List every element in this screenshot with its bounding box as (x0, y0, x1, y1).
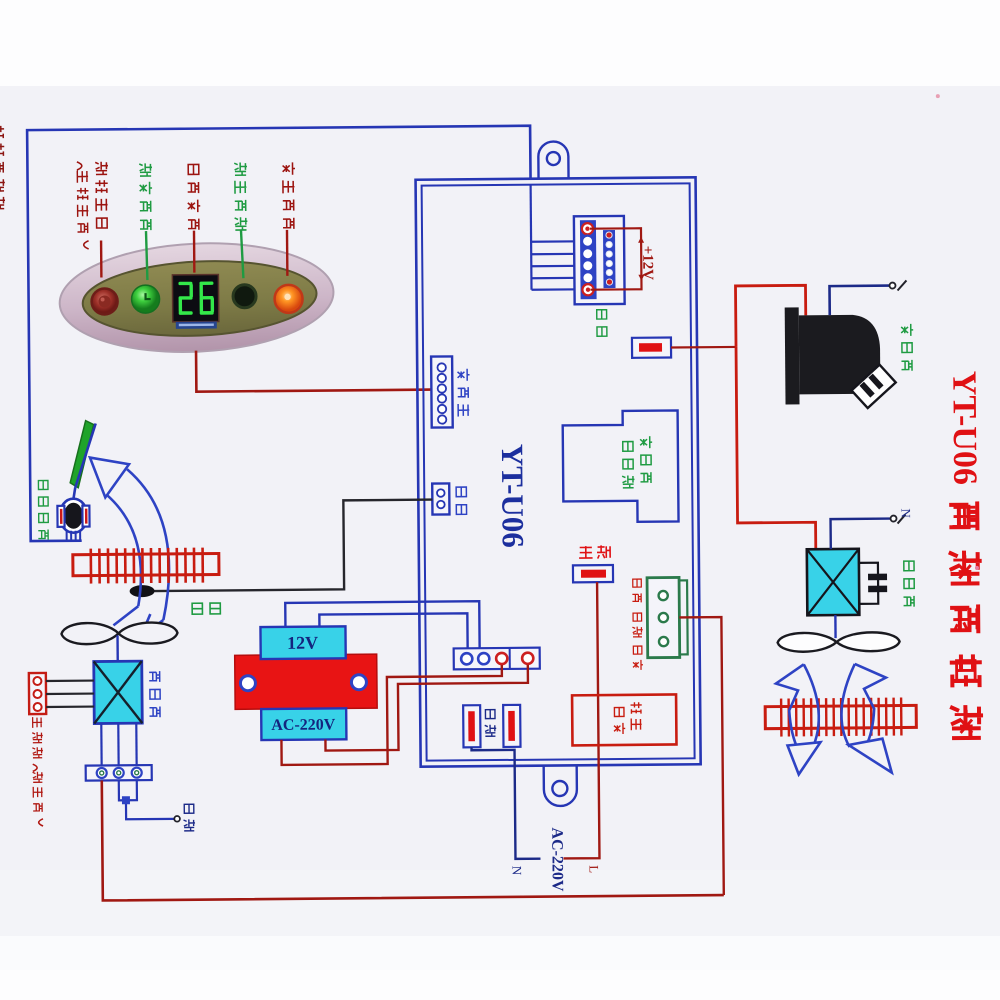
wire room temp sensor (152, 500, 433, 591)
board mounting tab bottom (544, 765, 577, 806)
title wiring diagram chars (948, 501, 983, 738)
sensor bulb (130, 585, 155, 597)
jumper component (632, 338, 671, 358)
airflow arrow left (outdoor) (776, 664, 819, 750)
motor pin comb (66, 531, 68, 541)
terminal strip 4-pin (454, 648, 540, 670)
wire transformer 220V b (325, 665, 529, 751)
wire neutral N (472, 747, 541, 860)
svg-text:AC-220V: AC-220V (548, 827, 566, 892)
start capacitor box (572, 694, 676, 745)
label heating indicator (282, 162, 295, 229)
connector swing (6-pin) (574, 216, 625, 304)
label compressor (901, 324, 913, 371)
7-seg digits 26 (178, 281, 214, 314)
svg-text:AC-220V: AC-220V (271, 716, 336, 734)
indoor fan motor box (94, 661, 143, 723)
panel LED red (power) (91, 288, 117, 314)
leader line heat indicator (286, 230, 289, 276)
outdoor heater element (765, 705, 916, 728)
compressor relay outline (563, 410, 679, 522)
indoor heater element (73, 553, 219, 575)
airflow arrow indoor (90, 457, 129, 497)
swing motor (73, 488, 75, 500)
label timer indicator (139, 163, 152, 230)
label left-edge cut-off vertical text (0, 126, 5, 209)
label (press 3s) (77, 162, 89, 249)
compressor body (785, 307, 800, 404)
label swing (fengbai) (597, 310, 607, 337)
wire jumper to compressor feed (671, 346, 736, 349)
leader line timer (146, 231, 147, 280)
label swing motor (38, 480, 49, 539)
label feedback line (unused) (32, 717, 43, 826)
label force switch (95, 162, 108, 228)
label display screen (458, 369, 470, 417)
svg-text:+12V: +12V (639, 246, 655, 281)
wire stub from frame into board (529, 185, 532, 290)
connector display screen (6-pin) (431, 356, 453, 427)
leader line temp display (193, 231, 196, 273)
control panel oval photo (57, 237, 336, 358)
swing louver (70, 421, 95, 488)
compressor plug (852, 365, 896, 408)
board mounting tab top (538, 141, 568, 178)
control board outline (416, 177, 701, 766)
panel button green (timer) (131, 285, 159, 313)
label room temp connector (456, 487, 466, 514)
live wire fuse component (573, 565, 613, 582)
outdoor fan motor box (807, 549, 860, 615)
svg-text:N: N (510, 866, 525, 876)
connector fan/neutral/cap (3-pin green) (679, 580, 688, 654)
wire box to fan (834, 615, 837, 638)
speck marks (936, 94, 940, 98)
wire outer frame loop (27, 126, 534, 541)
leader line remote receive (241, 230, 243, 278)
label live wire (579, 545, 610, 558)
panel small blue brand text (176, 321, 217, 328)
wire panel to display connector (196, 349, 431, 392)
wires motor to terminal strip (100, 723, 103, 765)
wire long bottom loop (102, 775, 724, 900)
+12V dimension bracket (590, 228, 642, 289)
indoor fan blades (61, 623, 118, 645)
label outdoor fan (903, 561, 914, 607)
outdoor fan blades (778, 633, 837, 652)
wire neutral to dot (119, 780, 174, 819)
transformer 12V block (260, 626, 345, 659)
wire fan to motor (116, 635, 119, 661)
airflow arrow right (outdoor) (841, 664, 886, 747)
outdoor fan capacitor (859, 563, 878, 604)
label temperature display (187, 164, 200, 229)
wire compressor feed (red) (735, 285, 806, 347)
wire outdoor fan N (831, 519, 891, 550)
labels fan / neutral / capacitor (632, 579, 641, 602)
wire connector to outdoor circuit (679, 617, 723, 895)
wire transformer 220V a (281, 665, 503, 765)
label indoor fan (149, 671, 160, 717)
neutral fuse 2 (503, 705, 520, 747)
label remote receive (234, 162, 247, 230)
label neutral (left) (183, 804, 195, 831)
leader line power switch (100, 240, 103, 277)
connector room temp (2-pin) (432, 483, 449, 514)
wire transformer 12V a (285, 601, 479, 650)
label neutral (between fuses) (485, 710, 497, 737)
wire transformer 12V b (319, 613, 467, 649)
svg-text:12V: 12V (287, 633, 318, 653)
feedback connector (3-pin) (29, 673, 46, 714)
panel LED orange (heat) (274, 285, 302, 313)
wires feedback to motor (46, 679, 94, 682)
svg-text:L: L (587, 865, 602, 873)
label compressor relay (640, 436, 652, 483)
transformer red body (235, 654, 377, 709)
label room temp (192, 603, 220, 614)
svg-text:YT-U06: YT-U06 (945, 371, 983, 485)
wires to swing connector (531, 240, 580, 243)
wire compressor neutral (blue) (829, 286, 889, 316)
indoor terminal strip (86, 765, 152, 781)
svg-text:N: N (898, 508, 913, 518)
transformer AC-220V block (261, 708, 346, 740)
wire live L (561, 582, 599, 858)
label start capacitor (631, 702, 642, 730)
panel IR receiver (233, 285, 256, 308)
svg-text:YT-U06: YT-U06 (495, 444, 531, 548)
neutral fuse 1 (463, 705, 480, 747)
panel display black box (172, 274, 218, 321)
